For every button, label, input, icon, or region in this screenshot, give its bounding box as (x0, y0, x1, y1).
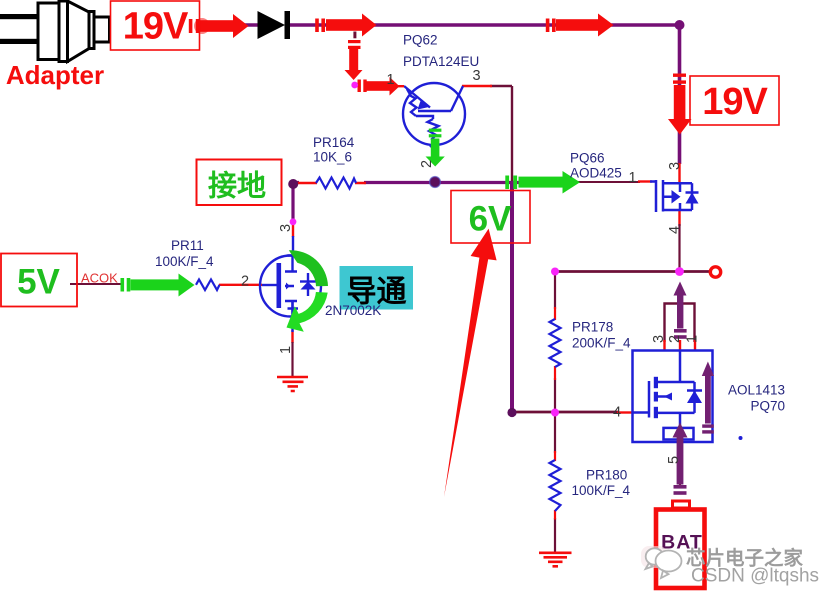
svg-text:Adapter: Adapter (6, 60, 104, 90)
svg-text:2: 2 (419, 160, 435, 168)
svg-text:PQ66: PQ66 (570, 151, 605, 166)
svg-text:接地: 接地 (208, 170, 266, 203)
svg-text:3: 3 (473, 68, 481, 84)
svg-text:1: 1 (278, 346, 294, 354)
svg-text:PR178: PR178 (572, 320, 613, 335)
svg-text:ACOK: ACOK (81, 271, 118, 286)
svg-text:PQ70: PQ70 (750, 399, 785, 414)
svg-text:2: 2 (241, 274, 249, 290)
svg-text:AOD425: AOD425 (570, 166, 622, 181)
svg-text:3: 3 (278, 224, 294, 232)
svg-text:4: 4 (667, 226, 683, 234)
svg-text:5: 5 (666, 456, 682, 464)
svg-text:PQ62: PQ62 (403, 33, 438, 48)
svg-text:AOL1413: AOL1413 (728, 383, 785, 398)
svg-text:1: 1 (685, 335, 701, 343)
svg-text:100K/F_4: 100K/F_4 (572, 483, 631, 498)
svg-text:100K/F_4: 100K/F_4 (155, 254, 214, 269)
svg-text:10K_6: 10K_6 (313, 150, 352, 165)
svg-text:3: 3 (651, 335, 667, 343)
svg-text:1: 1 (387, 72, 395, 88)
svg-text:PDTA124EU: PDTA124EU (403, 54, 479, 69)
svg-text:6V: 6V (469, 200, 512, 239)
svg-text:PR11: PR11 (171, 238, 204, 253)
svg-text:PR164: PR164 (313, 135, 355, 150)
svg-text:CSDN @ltqshs: CSDN @ltqshs (691, 566, 819, 587)
svg-text:200K/F_4: 200K/F_4 (572, 336, 631, 351)
svg-text:PR180: PR180 (586, 468, 627, 483)
svg-text:19V: 19V (702, 81, 768, 123)
svg-text:19V: 19V (123, 6, 189, 48)
svg-text:2N7002K: 2N7002K (325, 303, 381, 318)
svg-text:3: 3 (667, 162, 683, 170)
svg-text:4: 4 (613, 405, 621, 421)
svg-text:5V: 5V (17, 263, 60, 302)
svg-text:2: 2 (667, 335, 683, 343)
svg-text:1: 1 (629, 170, 637, 186)
